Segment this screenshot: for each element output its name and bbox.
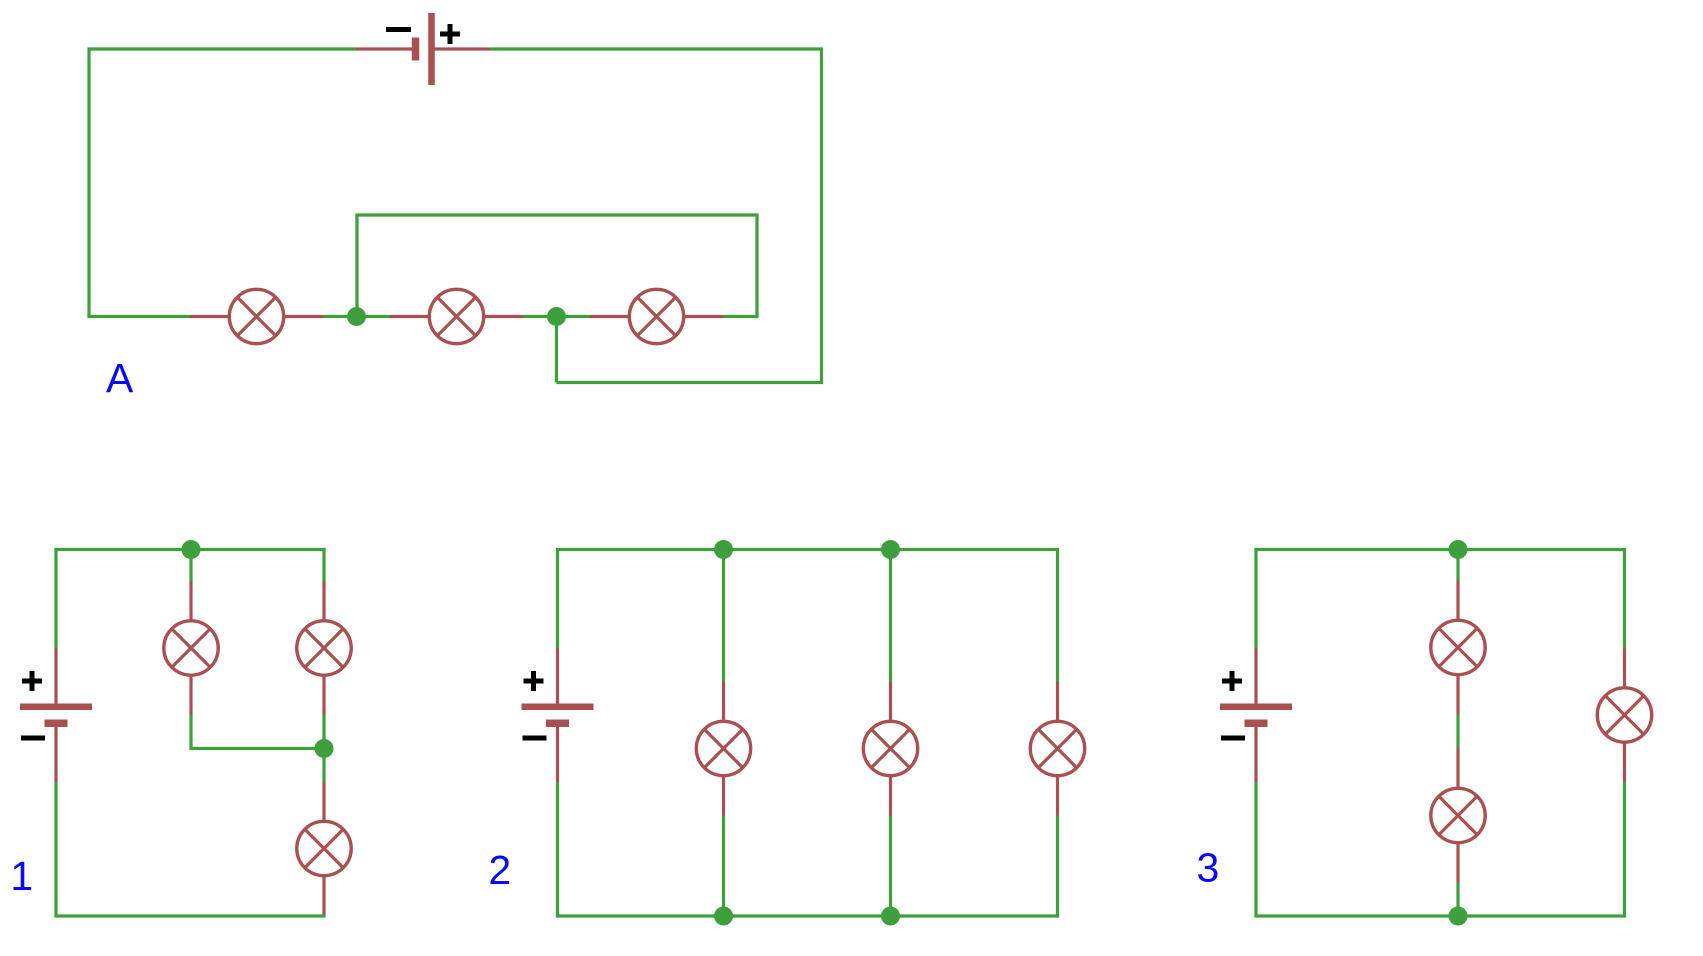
wire A top-right (battery + to right corner) [490,47,822,50]
svg-text:2: 2 [488,847,511,893]
battery B2 [522,648,594,782]
battery B3 plus polarity [1222,671,1242,691]
wire 3 top horizontal [1254,548,1626,551]
battery B1 plus polarity [22,671,42,691]
wire 1 left vertical lower [54,782,57,916]
wire 1 left vertical upper [54,550,57,649]
svg-text:1: 1 [10,853,33,899]
battery B3 [1220,648,1292,782]
battery B1 minus polarity [21,736,45,741]
lamp L12 [1597,648,1651,782]
wire 1 right vertical upper [322,550,325,582]
battery B2 plus polarity [524,671,544,691]
battery B2 minus polarity [523,736,547,741]
wire 2 left vertical lower [556,782,559,916]
wire 1 top horizontal [54,548,325,551]
wire A top-left (battery - to left corner) [89,47,356,50]
node N10 [1449,907,1468,926]
node N7 [714,907,733,926]
node N4 [315,739,334,758]
wire 1 node N4 to lamp L6 [322,749,325,782]
wire 1 bottom horizontal [54,914,325,917]
wire 1 right vertical to node N4 [322,715,325,749]
wire 2 branch 2 lower [889,816,892,917]
lamp L10 [1431,581,1485,715]
wire A row: left corner to lamp L1 [87,315,189,318]
lamp L7 [696,682,750,816]
wire 1 branch below lamp L4 [189,715,192,749]
wire A row: node N1 to lamp L2 [357,315,390,318]
wire A row: lamp L3 to inner loop [724,315,758,318]
wire 3 middle branch upper [1456,550,1459,581]
lamp L4 [164,581,218,715]
svg-text:A: A [106,355,134,401]
lamp L5 [297,581,351,715]
battery BA [356,13,490,85]
wire A left vertical [87,47,90,316]
lamp L11 [1431,749,1485,883]
wire A row: lamp L2 to node N2 [524,315,557,318]
node N6 [881,540,900,559]
node N1 [347,307,366,326]
lamp L8 [863,682,917,816]
wire 3 right vertical upper [1623,550,1626,649]
svg-text:3: 3 [1197,845,1220,891]
wire 2 left vertical upper [556,550,559,649]
lamp L3 [590,289,724,343]
battery B1 [20,648,92,782]
wire 3 right vertical lower [1623,782,1626,916]
battery B3 minus polarity [1221,736,1245,741]
wire 1 branch from node N3 down [189,550,192,582]
node N5 [714,540,733,559]
wire A jog vertical to node N2 [555,317,558,383]
wire 3 left vertical upper [1254,550,1257,649]
battery BA plus polarity [440,24,460,44]
wire 3 bottom horizontal [1254,914,1626,917]
wire A right vertical [820,47,823,382]
lamp L2 [390,289,524,343]
wire A inner loop left vertical [355,215,358,317]
wire 2 right vertical lower [1056,816,1059,917]
node N2 [547,307,566,326]
wire A row: lamp L1 to node N1 [324,315,357,318]
wire 2 top horizontal [556,548,1059,551]
battery BA minus polarity [386,27,411,32]
wire A row: node N2 to lamp L3 [557,315,590,318]
wire 1 middle horizontal [189,747,324,750]
wire 3 left vertical lower [1254,782,1257,916]
wire 3 middle branch between lamps [1456,715,1459,749]
wire 2 branch 1 lower [722,816,725,917]
lamp L6 [297,782,351,916]
node N3 [182,540,201,559]
node N8 [881,907,900,926]
wire A bottom jog horizontal [557,381,824,384]
lamp L1 [190,289,324,343]
wire 2 bottom horizontal [556,914,1059,917]
wire A inner loop top horizontal [355,213,758,216]
lamp L9 [1030,682,1084,816]
node N9 [1449,540,1468,559]
wire 3 middle branch lower [1456,883,1459,917]
wire 2 branch 1 upper [722,550,725,682]
wire A inner loop right vertical [755,215,758,318]
wire 2 branch 2 upper [889,550,892,682]
wire 2 right vertical upper [1056,550,1059,682]
